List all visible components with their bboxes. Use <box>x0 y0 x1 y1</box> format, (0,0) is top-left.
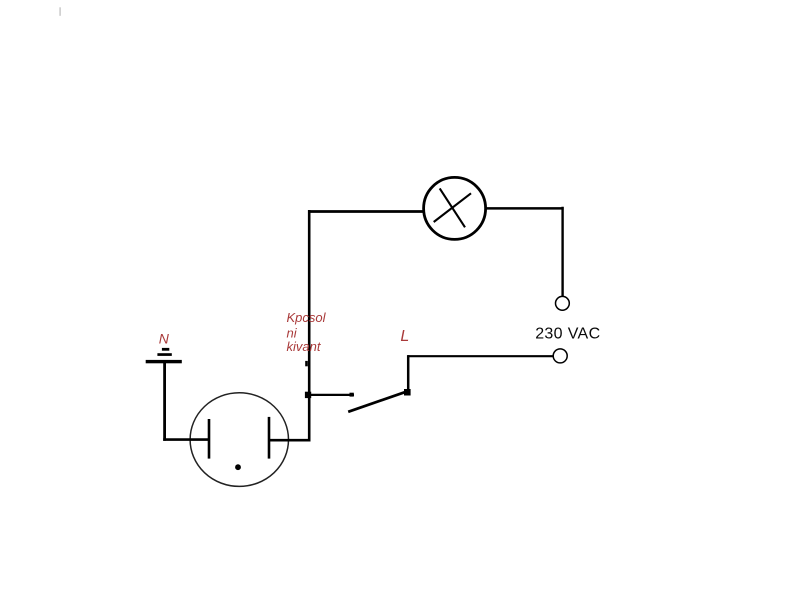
svg-text:230 VAC: 230 VAC <box>535 326 600 343</box>
svg-text:kivant: kivant <box>287 339 322 354</box>
svg-text:Kpcsol: Kpcsol <box>287 310 327 325</box>
svg-text:N: N <box>159 330 170 346</box>
svg-text:L: L <box>400 328 409 345</box>
